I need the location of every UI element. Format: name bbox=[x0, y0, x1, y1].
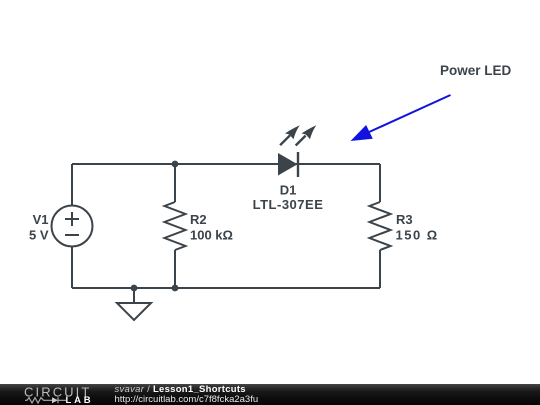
footer bar bbox=[0, 384, 540, 405]
svg-text:150 Ω: 150 Ω bbox=[396, 228, 439, 243]
svg-text:V1: V1 bbox=[33, 212, 49, 227]
wire R3 branch top bbox=[379, 164, 381, 202]
svg-text:Power LED: Power LED bbox=[440, 63, 512, 78]
wire R2 branch bottom bbox=[174, 250, 176, 288]
LED D1 anode triangle bbox=[278, 153, 298, 176]
svg-text:100 kΩ: 100 kΩ bbox=[190, 228, 233, 243]
svg-text:LAB: LAB bbox=[66, 395, 94, 405]
LED light arrow 1 bbox=[280, 125, 300, 145]
node junction at R2 bottom bbox=[172, 285, 179, 292]
CircuitLab logo squiggle diode bbox=[52, 397, 66, 403]
resistor R3 bbox=[370, 202, 391, 250]
LED D1 cathode bar bbox=[297, 152, 299, 177]
wire left (V1 branch) bbox=[71, 164, 73, 288]
wire top (V1 to R3 through D1) bbox=[72, 163, 380, 165]
wire bottom (ground rail) bbox=[72, 287, 380, 289]
voltage source V1 bbox=[52, 206, 93, 247]
ground bbox=[117, 288, 151, 320]
svg-text:LTL-307EE: LTL-307EE bbox=[253, 197, 324, 212]
CircuitLab logo squiggle resistor bbox=[25, 398, 52, 403]
svg-text:http://circuitlab.com/c7f8fcka: http://circuitlab.com/c7f8fcka2a3fu bbox=[115, 394, 259, 405]
svg-text:D1: D1 bbox=[280, 182, 297, 197]
wire R3 branch bottom bbox=[379, 250, 381, 288]
node junction at R2 top bbox=[172, 161, 179, 168]
wire R2 branch top bbox=[174, 164, 176, 202]
svg-text:R3: R3 bbox=[396, 212, 413, 227]
annotation arrow to LED bbox=[351, 95, 451, 141]
svg-text:5 V: 5 V bbox=[29, 228, 49, 243]
node junction at ground tap bbox=[131, 285, 138, 292]
LED light arrow 2 bbox=[296, 125, 317, 145]
svg-text:R2: R2 bbox=[190, 212, 207, 227]
resistor R2 bbox=[165, 202, 186, 250]
